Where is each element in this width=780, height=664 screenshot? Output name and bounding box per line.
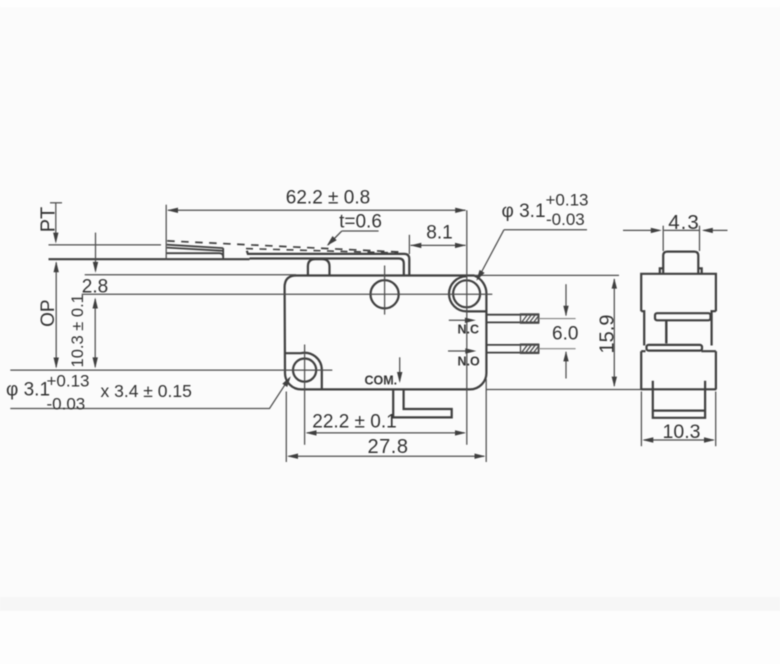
arrowhead 10.3 down: [93, 357, 98, 368]
body top extension line: [85, 274, 296, 276]
lever tip wedge right edge: [222, 248, 224, 259]
arrowhead mounting hole leader: [282, 376, 291, 387]
N.C terminal extension: [539, 318, 576, 320]
arrowhead 62.2 left: [167, 208, 178, 213]
svg-text:t=0.6: t=0.6: [339, 212, 382, 233]
bottom-left mounting hole: [293, 359, 316, 382]
svg-text:+0.13: +0.13: [47, 372, 90, 391]
end view plunger: [663, 252, 698, 274]
arrowhead 4.3 inward right: [651, 228, 662, 233]
dim 10.3 line: [94, 299, 96, 367]
PT top tick: [50, 202, 62, 204]
arrowhead 6.0 up: [563, 351, 568, 361]
15.9 top extension: [474, 274, 619, 276]
svg-text:10.3 ± 0.1: 10.3 ± 0.1: [69, 294, 87, 367]
phi3.1 top leader: [478, 230, 505, 280]
svg-text:N.C: N.C: [458, 323, 480, 337]
arrowhead 10.3 end left: [642, 437, 653, 442]
N.C arrow line: [449, 319, 473, 321]
arrowhead 10.3 end right: [704, 437, 715, 442]
dim 15.9 line: [613, 279, 615, 386]
dim 4.3 right extension: [699, 226, 701, 251]
dim 4.3 right arrow line: [704, 229, 728, 231]
dim 22.2 line: [307, 432, 465, 434]
end view plunger left foot: [660, 268, 663, 273]
arrowhead 2.8 down: [93, 262, 98, 273]
arrowhead 22.2 right: [455, 430, 466, 435]
svg-text:27.8: 27.8: [368, 436, 409, 458]
lever tip bar bottom line: [49, 258, 250, 260]
end view bottom block: [653, 381, 705, 418]
arrowhead 62.2 right: [455, 208, 466, 213]
svg-text:OP: OP: [38, 299, 59, 326]
dim 6.0 lower line: [565, 352, 567, 379]
svg-text:62.2 ± 0.8: 62.2 ± 0.8: [286, 188, 370, 209]
lever tip bar top edge: [166, 253, 223, 257]
COM terminal lug: [393, 389, 452, 417]
arrowhead COM down: [397, 372, 402, 383]
dim 62.2 line: [168, 209, 466, 211]
arrowhead 4.3 inward left: [702, 228, 713, 233]
end view step right: [712, 311, 716, 345]
bottom-left hole boss: [285, 353, 322, 390]
end view bottom block lip: [653, 410, 705, 412]
svg-text:x 3.4 ± 0.15: x 3.4 ± 0.15: [101, 381, 192, 401]
end view center rib: [665, 320, 667, 343]
arrowhead 22.2 left: [306, 430, 317, 435]
svg-text:φ 3.1: φ 3.1: [6, 380, 50, 401]
svg-text:4.3: 4.3: [668, 211, 700, 234]
mounting hole horizontal centerline: [10, 369, 332, 371]
svg-text:22.2 ± 0.1: 22.2 ± 0.1: [312, 412, 396, 433]
N.O terminal extension: [539, 348, 576, 350]
end view slot bar 2: [647, 345, 703, 351]
lever free position upper edge (dashed): [167, 241, 403, 252]
end view top block: [641, 274, 716, 311]
svg-text:10.3: 10.3: [663, 421, 701, 443]
dim 4.3 left extension: [662, 226, 664, 251]
N.C terminal: [486, 315, 538, 323]
arrowhead phi3.1 top leader: [476, 270, 484, 281]
dim 10.3 right extension: [715, 392, 717, 447]
arrowhead N.O right: [465, 348, 476, 353]
svg-text:15.9: 15.9: [596, 315, 618, 354]
dim 8.1 left extension: [408, 235, 410, 254]
dim 8.1 line: [411, 244, 466, 246]
free position reference line A: [49, 244, 162, 246]
svg-text:+0.13: +0.13: [546, 191, 589, 210]
end view bottom edge: [641, 388, 717, 390]
arrowhead 15.9 up: [612, 278, 617, 288]
arrowhead t=0.6 leader: [327, 236, 337, 246]
end view plunger right foot: [698, 268, 701, 273]
svg-text:-0.03: -0.03: [546, 210, 585, 229]
top-right hinge hole: [453, 280, 480, 307]
end view shoulder lines: [641, 350, 716, 352]
15.9 bottom extension: [486, 389, 641, 391]
dim 4.3 middle segment: [664, 229, 700, 231]
dim 27.8 line: [289, 455, 485, 457]
dim 4.3 left arrow line: [623, 229, 659, 231]
lever main arm inner edge: [250, 259, 404, 276]
N.C terminal crimp tip: [521, 314, 539, 323]
phi3.1 top underline: [504, 229, 587, 231]
arrowhead 8.1 right: [455, 243, 466, 248]
OP dim line: [55, 263, 57, 368]
lever tip wedge upper line: [167, 245, 223, 248]
PT dim line: [55, 203, 57, 242]
svg-text:N.O: N.O: [458, 355, 481, 369]
N.O terminal: [486, 345, 538, 353]
svg-text:-0.03: -0.03: [47, 395, 86, 414]
arrowhead OP down: [54, 358, 59, 369]
bottom label underline leader: [10, 378, 289, 409]
svg-text:8.1: 8.1: [426, 223, 452, 244]
arrowhead 10.3 up: [93, 298, 98, 309]
arrowhead 6.0 down: [563, 306, 568, 316]
plunger dome on body top: [308, 259, 330, 275]
dim 27.8 right extension: [485, 379, 487, 462]
end view step left: [641, 311, 644, 345]
arrowhead OP up: [54, 261, 59, 272]
dim 6.0 upper line: [565, 284, 567, 315]
top-right hole boss: [449, 276, 486, 311]
dim 10.3 end line: [644, 439, 714, 441]
end view slot bar 1: [655, 313, 711, 320]
t=0.6 leader: [328, 231, 342, 245]
switch body (side view): [285, 276, 487, 390]
left hole vertical centerline: [304, 345, 306, 445]
N.O arrow line: [448, 350, 474, 352]
right hole vertical centerline: [466, 210, 468, 444]
svg-text:COM.: COM.: [365, 374, 398, 388]
t=0.6 underline: [342, 230, 379, 232]
dim 27.8 left extension: [285, 392, 287, 463]
dim 10.3 left extension: [640, 392, 642, 447]
svg-text:6.0: 6.0: [552, 324, 578, 345]
svg-text:PT: PT: [38, 207, 60, 233]
arrowhead 8.1 left: [410, 243, 421, 248]
arrowhead N.C right: [465, 318, 476, 323]
COM arrow line: [399, 357, 401, 381]
lever tip wedge lower line: [167, 248, 223, 251]
center plunger hole: [371, 280, 399, 308]
arrowhead 27.8 left: [287, 454, 298, 459]
dim 2.8 upper line: [95, 233, 97, 271]
center hole vertical centerline: [384, 266, 386, 315]
lever main arm outer edge: [247, 251, 409, 276]
arrowhead PT down: [53, 233, 58, 244]
arrowhead 27.8 right: [475, 454, 486, 459]
dim 62.2 left extension: [165, 205, 167, 260]
lever free position lower edge (dashed): [246, 249, 398, 253]
N.O terminal crimp tip: [521, 344, 539, 353]
arrowhead 15.9 down: [612, 377, 617, 387]
end view lower sides: [641, 351, 716, 389]
holes horizontal centerline: [82, 293, 493, 295]
svg-text:φ 3.1: φ 3.1: [502, 201, 546, 222]
